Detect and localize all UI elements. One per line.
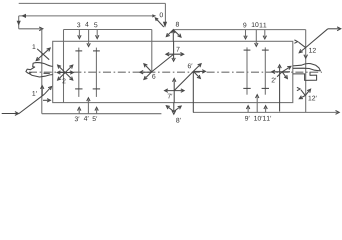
- arrowhead on left drop: [17, 21, 21, 26]
- node 6 prime arrows: [175, 71, 194, 90]
- arrow 11: [264, 30, 266, 37]
- roll stand line A right box: [246, 47, 248, 94]
- wire diagonal from second rail to node 8: [156, 18, 164, 27]
- arrowhead second rail right end: [152, 14, 156, 17]
- arrow 4 prime: [87, 100, 89, 114]
- label 6: [152, 74, 155, 79]
- label 1 prime: [32, 91, 36, 96]
- node 7 prime arrows: [165, 90, 183, 92]
- label 10 prime: [254, 116, 262, 121]
- right box right edge: [305, 30, 307, 113]
- label 4: [85, 22, 88, 27]
- wire top rail drop: [164, 3, 166, 22]
- label 12 prime: [308, 96, 316, 101]
- arrow 3: [78, 30, 80, 37]
- node 2 prime arrows: [273, 71, 290, 73]
- node 7 arrows: [167, 53, 183, 55]
- wire top rail: [19, 2, 166, 4]
- arrow 9 prime: [247, 108, 249, 113]
- right box top edge: [173, 29, 305, 31]
- left box right edge: [151, 30, 153, 73]
- arrow 9: [245, 30, 247, 37]
- node 8 prime arrows: [173, 103, 175, 113]
- node 1 crossed arrows: [37, 49, 49, 60]
- wire upper horizontal into line: [19, 28, 42, 30]
- label 8: [176, 22, 179, 27]
- wire bottom right rail with exit arrow: [193, 111, 338, 113]
- node 12 prime arrows: [301, 90, 305, 96]
- node 8 arrows: [172, 30, 174, 42]
- label 2 prime: [272, 78, 277, 83]
- arrowhead top rail into node 8 area: [163, 22, 167, 28]
- left box left edge: [63, 30, 65, 103]
- label 10: [252, 22, 259, 27]
- arrow 10 prime: [256, 97, 258, 113]
- wire second rail: [19, 15, 153, 17]
- label 5: [94, 23, 97, 28]
- label 6 prime: [188, 63, 193, 68]
- entry arrow bottom left: [2, 113, 18, 115]
- roll stand line B left box: [95, 48, 97, 97]
- wire bottom left rail: [42, 113, 162, 115]
- inner rectangle roll line: [53, 41, 293, 102]
- wire left outer vertical: [41, 29, 43, 114]
- node 2 crossed arrows: [58, 72, 73, 74]
- node 1 prime arrows: [41, 87, 43, 95]
- label 11: [260, 23, 267, 28]
- label 12: [309, 48, 316, 53]
- arrow 11 prime: [265, 108, 267, 113]
- label 1: [33, 44, 36, 49]
- label 4 prime: [84, 116, 89, 121]
- arrowhead on diagonal: [155, 18, 158, 21]
- arrow 5: [96, 30, 98, 37]
- arrowhead left end of second rail: [21, 14, 26, 18]
- node 6 arrows: [152, 54, 174, 72]
- arrow 3 prime: [78, 109, 80, 114]
- label 5 prime: [93, 116, 98, 121]
- fork symbol left: [26, 63, 53, 77]
- arrow 5 prime: [96, 109, 98, 114]
- label 11 prime: [263, 116, 271, 121]
- roll stand line B right box: [264, 47, 266, 94]
- wire left drop: [18, 16, 20, 29]
- label 7 prime: [168, 94, 173, 99]
- label 2: [62, 78, 65, 83]
- roll stand line A left box: [78, 48, 80, 97]
- label 8 prime: [176, 118, 181, 123]
- arrowhead pointing right: [39, 27, 43, 31]
- small arrow to inner corner: [43, 99, 49, 101]
- label 9 prime: [245, 116, 250, 121]
- centerline pass line: [29, 71, 322, 73]
- label 7: [176, 47, 179, 52]
- label 3 prime: [75, 116, 80, 121]
- arrow 4: [88, 30, 90, 45]
- left box top edge: [64, 29, 152, 31]
- node 12 arrows and exit: [306, 29, 328, 48]
- arrow 10: [255, 30, 257, 45]
- label 3: [77, 22, 80, 27]
- label 9: [243, 23, 246, 28]
- fork symbol right: [293, 64, 321, 71]
- node 0 label: [160, 12, 163, 17]
